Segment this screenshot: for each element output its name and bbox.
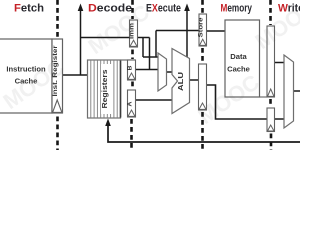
wire: writeback bus to register file — [108, 125, 300, 142]
wire: Imm output right — [138, 37, 150, 39]
data cache — [225, 20, 260, 97]
wire: decode to Imm register — [81, 37, 130, 39]
wire: register file top link to B — [121, 59, 136, 61]
register B (D/EX) — [128, 60, 136, 80]
wire: ALU output to EX/M register — [190, 79, 199, 81]
svg-text:A: A — [126, 101, 133, 106]
stage boundary M/W (dashed) — [269, 0, 272, 150]
op-amp style ALU — [172, 49, 190, 114]
inst. register (F/D pipeline register) — [52, 39, 63, 113]
svg-text:Store: Store — [198, 17, 205, 37]
wire: execute up-arrow tap — [186, 9, 188, 58]
stage boundary D/EX (dashed) — [132, 0, 133, 150]
mux (execute operand select) — [158, 53, 167, 91]
wire: W alu register output to writeback mux — [275, 118, 285, 120]
stage boundary F/D (dashed) — [56, 0, 59, 150]
register alu-result (M/W) — [267, 108, 275, 132]
wire: A output to ALU — [136, 99, 173, 101]
wire: writeback mux output — [294, 90, 301, 92]
stage boundary EX/M (dashed) — [201, 0, 204, 150]
wire: Imm tap down to mux upper input — [142, 38, 144, 58]
register file — [88, 60, 121, 118]
register load-data (M/W) — [267, 26, 275, 97]
wire: mux upper input horizontal — [143, 56, 158, 58]
register Store (EX/M) — [199, 14, 207, 46]
svg-text:Memory: Memory — [221, 3, 253, 15]
svg-text:Registers: Registers — [100, 70, 109, 109]
wire: Store register output to data cache — [207, 30, 226, 32]
wire: EX/M register output bypass under cache — [207, 85, 268, 119]
wire: decode up-arrow tap — [80, 9, 82, 75]
register Imm (D/EX) — [130, 20, 138, 47]
svg-text:Data: Data — [230, 52, 247, 61]
register A (D/EX) — [128, 90, 136, 117]
wire: Imm tap down to B line — [149, 38, 151, 70]
wire: B output to mux — [136, 69, 159, 71]
wire: store data to Store register — [156, 30, 199, 32]
wire: W load register output to writeback mux — [275, 62, 285, 64]
svg-text:ALU: ALU — [176, 71, 185, 91]
svg-text:B: B — [126, 65, 133, 70]
wire: mux output to ALU — [167, 71, 173, 73]
register ALU-out (EX/M) — [199, 64, 207, 110]
svg-text:EXecute: EXecute — [146, 3, 181, 15]
watermark — [0, 0, 320, 129]
instruction cache — [0, 39, 52, 113]
wire: store data tap up — [155, 31, 157, 58]
svg-text:Fetch: Fetch — [14, 3, 44, 15]
wire: inst register output to register file — [63, 74, 88, 76]
mux (writeback select) — [284, 55, 294, 128]
